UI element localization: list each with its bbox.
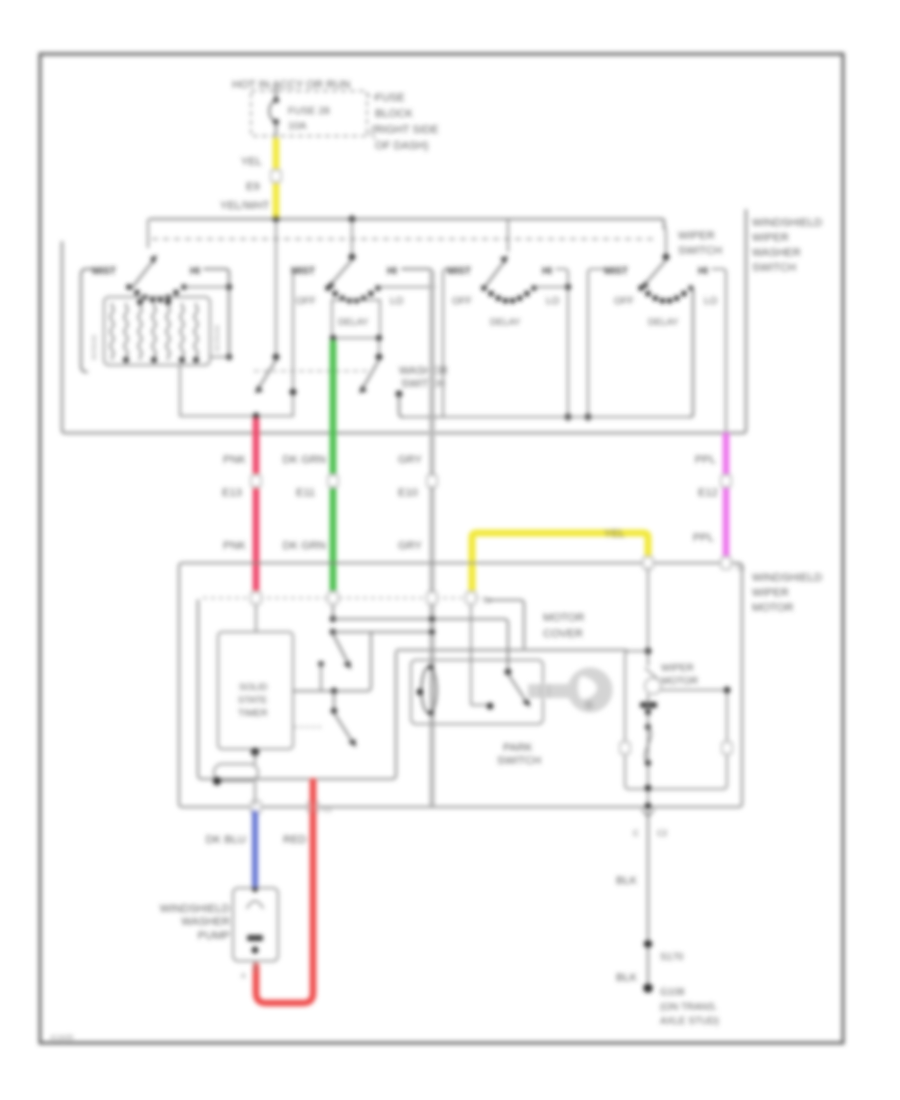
svg-text:SWITCH: SWITCH [497, 755, 541, 767]
relay contact arm 2 [318, 661, 324, 667]
park switch feed [470, 604, 472, 660]
solid state timer [255, 604, 257, 632]
park fixed contact [470, 660, 472, 705]
svg-text:E12: E12 [698, 487, 718, 499]
svg-text:MIST: MIST [604, 266, 628, 277]
svg-text:E10: E10 [398, 487, 418, 499]
cam key symbol [528, 684, 570, 698]
svg-text:(ON TRANS.: (ON TRANS. [660, 1002, 718, 1013]
section 1 contact arc [126, 284, 132, 290]
park switch arm [505, 669, 512, 676]
svg-text:OFF: OFF [296, 296, 316, 307]
svg-text:OF DASH): OF DASH) [375, 140, 429, 152]
svg-text:MOTOR: MOTOR [752, 602, 793, 614]
svg-text:WASHER: WASHER [752, 247, 801, 259]
wire BLK [647, 810, 649, 941]
svg-text:PPL: PPL [695, 454, 716, 466]
svg-text:HI: HI [190, 266, 200, 277]
section 3 wiper arm [484, 263, 503, 288]
svg-text:INCREASE: INCREASE [92, 334, 98, 360]
svg-text:WINDSHIELD: WINDSHIELD [752, 217, 822, 229]
svg-text:10A: 10A [288, 121, 306, 132]
svg-text:C: C [633, 829, 639, 838]
fuse F28 [275, 87, 277, 99]
wire GRY [430, 271, 435, 806]
wire YEL from fuse [273, 138, 280, 219]
washer switch right arm pivot [378, 340, 380, 355]
section 4 LO lead [690, 287, 693, 417]
svg-text:HI: HI [698, 266, 708, 277]
delay resistor element 3 [138, 303, 141, 360]
delay resistor element 1 [110, 303, 113, 360]
svg-text:E11: E11 [296, 487, 315, 499]
svg-text:(RIGHT SIDE: (RIGHT SIDE [371, 124, 439, 136]
mechanical dashed link [152, 238, 656, 240]
delay resistor element 7 [194, 303, 197, 360]
svg-text:G108: G108 [660, 987, 685, 998]
wire YEL jumper [472, 533, 648, 598]
svg-text:YEL: YEL [241, 156, 262, 168]
svg-text:TIMER: TIMER [238, 708, 268, 719]
svg-text:MOTOR: MOTOR [661, 676, 698, 687]
svg-text:DELAY: DELAY [648, 317, 679, 328]
svg-text:AXLE STUD): AXLE STUD) [660, 1016, 719, 1027]
case connector right [722, 742, 732, 754]
svg-text:DELAY: DELAY [338, 317, 369, 328]
motor electronics inner box [198, 600, 396, 779]
switch feed bus [150, 219, 664, 228]
brush/commutator [645, 668, 659, 680]
wiper motor armature circuit [647, 567, 649, 666]
svg-text:STATE: STATE [238, 695, 267, 706]
svg-text:WINDSHIELD: WINDSHIELD [752, 572, 822, 584]
svg-text:WINDSHIELD: WINDSHIELD [160, 903, 230, 915]
svg-text:HI: HI [387, 266, 397, 277]
svg-text:S170: S170 [660, 952, 684, 963]
svg-text:E9: E9 [246, 181, 260, 193]
svg-text:DK GRN: DK GRN [282, 454, 326, 466]
svg-text:PARK: PARK [503, 742, 533, 754]
feed segment B [403, 416, 691, 418]
svg-text:OFF: OFF [614, 296, 634, 307]
svg-text:GRY: GRY [398, 454, 423, 466]
svg-text:LO: LO [546, 296, 560, 307]
svg-text:COVER: COVER [543, 628, 583, 640]
ground G108 [643, 983, 653, 993]
washer switch dashed link [254, 370, 370, 372]
wire DK GRN [330, 341, 337, 598]
svg-text:BLOCK: BLOCK [375, 108, 413, 120]
wire RED [256, 781, 313, 1003]
svg-text:WIPER: WIPER [752, 587, 789, 599]
relay contact arm 1 [332, 604, 334, 618]
section 4 contact arc [638, 285, 644, 291]
svg-text:C1: C1 [323, 807, 332, 814]
relay coil loop [214, 764, 258, 781]
delay resistor element 4 [152, 303, 155, 360]
washer switch right arm [364, 360, 379, 386]
svg-text:FUSE: FUSE [375, 92, 405, 104]
case connector left [620, 742, 630, 754]
park switch box [411, 660, 543, 724]
line L1 to park switch arm [333, 619, 508, 670]
svg-text:413435: 413435 [50, 1035, 73, 1042]
svg-text:SWITCH: SWITCH [678, 245, 722, 257]
svg-text:BLK: BLK [616, 972, 638, 984]
svg-text:YEL: YEL [604, 528, 625, 540]
svg-text:C2: C2 [483, 598, 492, 605]
svg-text:DECREASE: DECREASE [215, 324, 221, 352]
wire PNK [253, 419, 260, 598]
svg-text:GRY: GRY [398, 540, 423, 552]
delay resistor bank [104, 297, 210, 365]
washer switch left arm [260, 360, 276, 386]
svg-text:C2: C2 [657, 829, 668, 838]
delay resistor element 5 [166, 303, 169, 360]
connector E12 on PPL [721, 475, 731, 487]
park moving loop contact [422, 667, 437, 713]
svg-text:LO: LO [390, 296, 404, 307]
svg-text:A: A [241, 973, 246, 980]
connector E13 on PNK [251, 475, 261, 487]
svg-text:FUSE 28: FUSE 28 [288, 106, 330, 117]
fuse block dashed box [251, 91, 367, 136]
connector E11 on DK GRN [328, 475, 338, 487]
splice S170 [644, 940, 652, 948]
delay box [332, 300, 380, 338]
svg-text:OFF: OFF [452, 296, 472, 307]
connector C2 below motor [642, 810, 654, 817]
section 4 wiper arm [646, 260, 666, 283]
svg-text:SOLID: SOLID [239, 682, 268, 693]
svg-text:PNK: PNK [223, 454, 247, 466]
feed segment A [180, 415, 293, 417]
wiper relay feed line [396, 649, 627, 651]
section 2 contact arc [325, 285, 331, 291]
washer switch feed from bus [275, 219, 277, 355]
svg-text:LO: LO [704, 296, 718, 307]
svg-text:PPL: PPL [693, 532, 714, 544]
delay resistor element 2 [124, 303, 127, 360]
svg-text:DELAY: DELAY [490, 317, 521, 328]
motor connector row C2 [203, 597, 487, 599]
svg-text:SWITCH: SWITCH [752, 262, 796, 274]
delay resistor element 6 [180, 303, 183, 360]
motor inner frame [625, 651, 727, 789]
section 4 pivot [664, 224, 666, 255]
armature winding [645, 727, 651, 763]
wire DK BLU [252, 810, 258, 886]
washer contact node [290, 389, 297, 396]
section 2 pivot [351, 219, 353, 256]
svg-text:DK GRN: DK GRN [282, 540, 326, 552]
svg-text:DK BLU: DK BLU [206, 834, 246, 846]
svg-text:WASHER: WASHER [181, 916, 230, 928]
svg-text:WIPER: WIPER [661, 663, 694, 674]
section 2 wiper arm [332, 260, 352, 283]
windshield wiper motor box [179, 563, 742, 807]
wire PPL [723, 433, 730, 563]
line L2 to relay arm 2 [333, 631, 432, 633]
section 3 contact arc [481, 285, 487, 291]
svg-text:PNK: PNK [223, 540, 247, 552]
connector on motor box top (YEL) [643, 557, 653, 569]
section 3 pivot [507, 219, 509, 252]
svg-text:HI: HI [542, 266, 552, 277]
svg-text:PUMP: PUMP [198, 930, 230, 942]
svg-text:SWITCH: SWITCH [401, 378, 445, 390]
svg-text:WIPER: WIPER [752, 232, 789, 244]
svg-text:HOT IN ACCY OR RUN: HOT IN ACCY OR RUN [232, 79, 350, 91]
switch section 1 pivot arm [147, 219, 149, 248]
connector on motor box top (PPL) [721, 557, 731, 569]
svg-text:C1: C1 [736, 565, 745, 572]
bank output lead [179, 365, 181, 416]
svg-text:WASHER: WASHER [399, 365, 448, 377]
svg-text:WIPER: WIPER [678, 230, 715, 242]
svg-text:MIST: MIST [92, 266, 116, 277]
connector E9 [271, 170, 281, 182]
windshield washer pump [233, 888, 278, 961]
svg-text:MIST: MIST [291, 266, 315, 277]
svg-text:E13: E13 [222, 487, 242, 499]
windshield wiper/washer switch box [62, 210, 746, 433]
svg-text:MIST: MIST [447, 266, 471, 277]
svg-text:MOTOR: MOTOR [543, 612, 584, 624]
svg-text:BLK: BLK [616, 875, 638, 887]
svg-text:YEL/WHT: YEL/WHT [220, 200, 270, 212]
connector E10 on GRY [427, 475, 437, 487]
bottom connectors C1 [251, 801, 261, 813]
svg-text:RED: RED [283, 834, 307, 846]
